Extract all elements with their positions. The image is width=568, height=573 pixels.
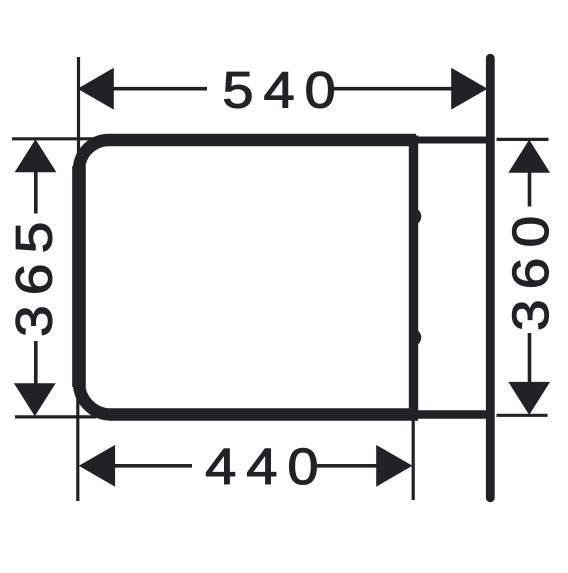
extension line left top horizontal xyxy=(12,137,94,140)
dimension 365 down arrow xyxy=(14,383,56,416)
svg-text:540: 540 xyxy=(222,62,345,119)
svg-text:365: 365 xyxy=(6,212,63,338)
extension line bottom-left vertical xyxy=(76,396,79,501)
wall line xyxy=(486,58,495,498)
dimension 540 line left segment xyxy=(112,87,207,91)
dimension 440 left arrow xyxy=(79,445,115,487)
extension line bottom-right vertical xyxy=(412,419,415,500)
dimension 540 right arrow xyxy=(451,68,487,110)
dimension 440 right arrow xyxy=(376,445,412,487)
seat right edge xyxy=(409,136,418,420)
dimension 365 line upper segment xyxy=(34,172,38,214)
dimension 360 line upper segment xyxy=(528,173,532,207)
dimension 440 line right segment xyxy=(317,464,378,468)
seat left edge (slightly thicker) xyxy=(72,166,86,387)
svg-text:360: 360 xyxy=(503,206,560,332)
extension line right top horizontal xyxy=(497,138,549,141)
dimension 360 line lower segment xyxy=(528,333,532,382)
dimension 540 line right segment xyxy=(334,87,454,91)
bottom edge extension to wall xyxy=(415,410,491,418)
dimension 440 line left segment xyxy=(114,464,192,468)
extension line top-left vertical xyxy=(77,57,80,173)
dimension 365 line lower segment xyxy=(34,341,38,385)
hinge bump lower on seat right edge xyxy=(413,329,422,347)
dimension 365 up arrow xyxy=(15,139,57,172)
svg-text:440: 440 xyxy=(205,439,328,496)
dimension 360 up arrow xyxy=(508,140,550,173)
hinge bump upper on seat right edge xyxy=(413,208,422,226)
seat outline (top view, rounded left corners) xyxy=(79,140,418,415)
extension line right bottom horizontal xyxy=(497,414,548,417)
extension line left bottom horizontal xyxy=(15,415,96,418)
top edge extension to wall xyxy=(412,137,491,144)
dimension 360 down arrow xyxy=(508,382,550,415)
dimension 540 left arrow xyxy=(78,68,114,110)
